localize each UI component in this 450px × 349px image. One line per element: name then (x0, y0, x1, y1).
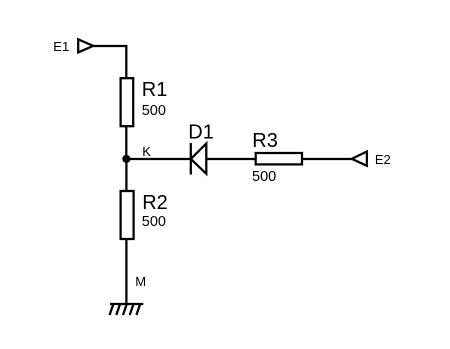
wire E1 to R1 (93, 46, 127, 78)
terminal E1 (78, 39, 93, 52)
resistor R2 (121, 191, 134, 239)
wire R1 to node K (125, 126, 127, 159)
resistor R1 (121, 78, 134, 126)
terminal E2 (352, 152, 367, 166)
node K (122, 155, 130, 163)
wire node K to D1 (126, 158, 190, 160)
wire node K to R2 (125, 159, 127, 191)
wire R2 to ground (125, 239, 127, 304)
svg-text:500: 500 (142, 103, 166, 119)
svg-text:E1: E1 (53, 39, 69, 54)
diode D1 (190, 143, 192, 175)
svg-text:E2: E2 (375, 152, 391, 167)
svg-text:R1: R1 (142, 79, 168, 101)
wire R3 to E2 (302, 158, 352, 160)
svg-text:500: 500 (252, 169, 276, 185)
svg-text:M: M (135, 274, 146, 289)
svg-text:R2: R2 (142, 192, 168, 214)
ground (110, 304, 144, 315)
svg-text:500: 500 (142, 214, 166, 230)
resistor R3 (256, 153, 302, 164)
svg-text:D1: D1 (188, 121, 214, 143)
svg-text:K: K (142, 144, 151, 159)
wire D1 to R3 (206, 158, 255, 160)
svg-text:R3: R3 (252, 130, 278, 152)
